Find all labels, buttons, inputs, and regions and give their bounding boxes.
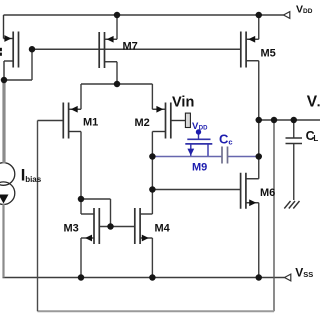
- node Cc to output vertical: [256, 153, 263, 160]
- ground: [284, 201, 299, 209]
- terminal VSS: [285, 274, 291, 281]
- svg-text:SS: SS: [303, 270, 313, 279]
- wire M7 source to VDD: [116, 15, 118, 39]
- node tail: [114, 81, 121, 88]
- wire M1 source up: [80, 84, 82, 109]
- wire feedback bottom horizontal: [38, 310, 275, 312]
- transistor M8: [4, 15, 19, 80]
- node output CL: [291, 117, 298, 124]
- svg-text:V: V: [296, 3, 303, 15]
- svg-text:DD: DD: [303, 8, 313, 15]
- transistor M5: [241, 32, 259, 68]
- wire M3 source down: [80, 238, 82, 278]
- transistor M7: [99, 32, 117, 68]
- svg-text:Vin: Vin: [172, 95, 194, 111]
- wire M7 drain to tail node: [116, 62, 118, 84]
- wire M1 drain down to M3 drain: [80, 132, 82, 215]
- wire bias grey lower: [2, 204, 4, 278]
- node VDD bulk dot (blue): [196, 129, 201, 134]
- current source Ibias: [0, 163, 15, 205]
- wire M3-M4 common gate: [99, 226, 135, 228]
- transistor M4: [135, 208, 153, 244]
- svg-text:M5: M5: [261, 48, 276, 60]
- wire M5 drain to output: [258, 61, 260, 120]
- svg-text:M4: M4: [155, 223, 171, 235]
- node M5 source on VDD rail: [256, 12, 263, 19]
- wire feedback left vertical to M1 gate: [37, 121, 39, 312]
- wire CL top connection: [293, 120, 295, 138]
- node junction dots: [1, 12, 297, 281]
- wire M6 source down to VSS: [258, 203, 260, 278]
- wire bias grey upper: [2, 80, 5, 164]
- node M6 source on VSS: [256, 274, 263, 281]
- svg-text:V: V: [307, 93, 318, 110]
- svg-text:M6: M6: [260, 187, 275, 199]
- label M8 fragment (cut off at image edge): [0, 48, 2, 56]
- wire feedback right vertical: [273, 120, 275, 311]
- transistor M3: [81, 208, 99, 244]
- node M1-M3 drain: [78, 196, 85, 203]
- wire M2 drain down to M4 drain: [151, 132, 153, 215]
- svg-text:M1: M1: [83, 117, 98, 129]
- wire M8 gate to drain (diode connection vertical): [31, 49, 33, 80]
- svg-text:M9: M9: [192, 162, 207, 174]
- svg-text:L: L: [313, 134, 318, 143]
- wire mirror gate tie vertical: [110, 199, 112, 227]
- node M3 source on VSS: [78, 274, 85, 281]
- wire M3 drain to mirror gate tie horizontal: [81, 198, 111, 200]
- node M4 source on VSS: [149, 274, 156, 281]
- wire M6 gate from second stage input: [152, 189, 240, 191]
- svg-text:bias: bias: [25, 175, 42, 184]
- MOS capacitor M9 (blue): [185, 133, 212, 157]
- wire output down to M6 drain: [258, 120, 260, 179]
- wire compensation node (blue) left: [152, 156, 222, 158]
- wire M8 drain node horizontal: [4, 79, 32, 81]
- transistor M6: [241, 173, 259, 209]
- svg-text:M2: M2: [135, 117, 150, 129]
- transistor M1: [63, 103, 81, 139]
- svg-text:M7: M7: [123, 40, 138, 52]
- node M6 gate tie: [149, 186, 156, 193]
- node M8 drain: [1, 77, 8, 84]
- wire M1 gate lead: [38, 120, 64, 122]
- node M2 drain / Cc: [149, 153, 156, 160]
- svg-text:V: V: [295, 266, 303, 280]
- wire output rail: [259, 119, 320, 121]
- transistor M2: [152, 103, 185, 139]
- svg-text:c: c: [228, 138, 232, 147]
- svg-text:M3: M3: [64, 223, 79, 235]
- wire gate bias line M8-M7-M5: [32, 48, 241, 50]
- wire M2 source up: [151, 84, 153, 109]
- node mirror gate: [107, 223, 114, 230]
- wire compensation node (blue) right: [228, 156, 259, 158]
- wire VSS rail: [3, 277, 285, 279]
- terminal VDD: [284, 12, 290, 19]
- wire M4 source down: [151, 238, 153, 278]
- svg-text:DD: DD: [199, 126, 208, 132]
- node bias gate tie: [29, 46, 36, 53]
- capacitor Cc: [222, 147, 228, 164]
- node M7 source on VDD rail: [114, 12, 121, 19]
- input port box Vin: [185, 113, 190, 127]
- wire VDD rail: [4, 14, 284, 16]
- wire CL bottom to ground: [293, 144, 295, 201]
- node output feedback: [271, 117, 278, 124]
- capacitor CL: [286, 138, 303, 144]
- wire M5 source to VDD: [258, 15, 260, 39]
- node output left: [256, 117, 263, 124]
- wire tail node horizontal: [81, 83, 152, 85]
